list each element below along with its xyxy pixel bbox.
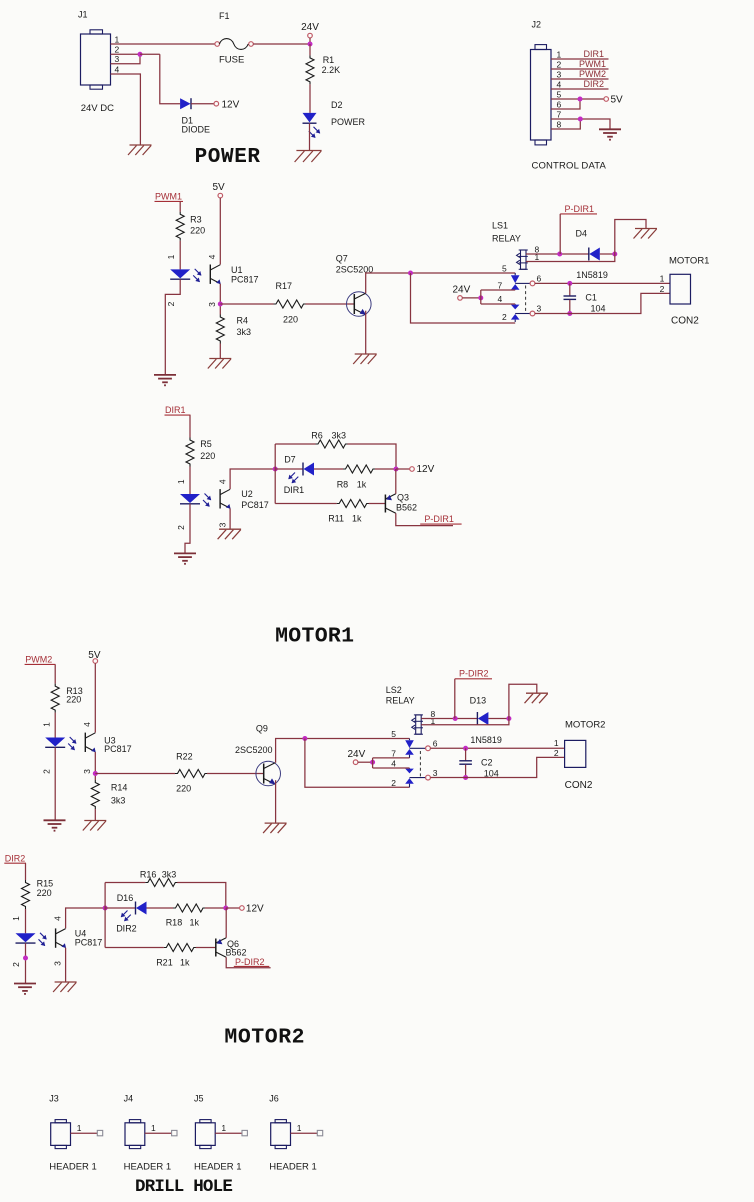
wire D13 to node (488, 718, 509, 720)
svg-text:2.2K: 2.2K (322, 65, 341, 75)
wire Q6 emitter to 12V node (225, 908, 227, 938)
wire 24V to relay pins 7/4 (462, 297, 481, 299)
svg-text:4: 4 (498, 294, 503, 304)
ground U2 LED (174, 552, 196, 554)
svg-text:5V: 5V (611, 95, 624, 106)
resistor R17 220 (274, 300, 307, 308)
wire R13 to U3 LED (54, 713, 56, 738)
svg-text:3k3: 3k3 (237, 327, 252, 337)
resistor R3 220 (176, 212, 184, 241)
wire box bottom to R11 (275, 503, 337, 505)
resistor R8 1k (343, 465, 376, 473)
svg-text:MOTOR1: MOTOR1 (669, 256, 709, 267)
svg-text:DIR2: DIR2 (116, 923, 137, 933)
wire J6 pin1 (291, 1132, 318, 1134)
svg-text:C2: C2 (481, 757, 493, 767)
wire J2 pin3 net PWM2 (551, 78, 609, 80)
wire U3 pin2 to ground (54, 747, 56, 820)
svg-text:220: 220 (37, 888, 52, 898)
svg-text:J3: J3 (49, 1094, 59, 1104)
svg-text:PC817: PC817 (104, 744, 132, 754)
resistor R18 1k (173, 904, 206, 912)
wire R4 to ground (219, 344, 221, 359)
resistor R22 220 (175, 770, 208, 778)
svg-text:4: 4 (82, 722, 92, 727)
svg-text:2: 2 (176, 525, 186, 530)
svg-text:1: 1 (557, 50, 562, 60)
junction U1 pin3 (218, 302, 223, 307)
svg-text:220: 220 (176, 784, 191, 794)
ground Q7 (355, 353, 377, 355)
svg-text:POWER: POWER (195, 146, 261, 169)
svg-text:R1: R1 (323, 55, 335, 65)
svg-text:DIODE: DIODE (182, 125, 211, 135)
power port 12V DIR1 (410, 467, 415, 472)
svg-text:MOTOR2: MOTOR2 (224, 1025, 305, 1049)
junction C1 top (567, 281, 572, 286)
wire R17 to Q7 base (306, 303, 355, 305)
ground J2 (599, 128, 621, 130)
wire box mid to D7 (275, 468, 303, 470)
svg-text:3: 3 (207, 302, 217, 307)
optocoupler U3 PC817 (45, 738, 65, 747)
svg-text:220: 220 (200, 451, 215, 461)
svg-text:2: 2 (391, 778, 396, 788)
svg-text:1: 1 (151, 1123, 156, 1133)
svg-text:220: 220 (66, 695, 81, 705)
wire DIR2 to R15 (25, 863, 27, 880)
no-connect square J4 (172, 1130, 177, 1135)
wire R5 to U2 LED (189, 467, 191, 495)
svg-text:PWM1: PWM1 (579, 59, 606, 69)
wire R21 to Q6 base (196, 947, 216, 949)
svg-text:4: 4 (218, 479, 228, 484)
svg-text:R14: R14 (111, 782, 128, 792)
wire J3 pin1 (71, 1132, 98, 1134)
svg-text:D16: D16 (117, 893, 134, 903)
wire to 12V port (226, 907, 240, 909)
junction C2 top (463, 746, 468, 751)
wire R11 to Q3 base (369, 503, 386, 505)
wire U3 pin3 node (94, 752, 96, 780)
wire fuse to 24V node (253, 43, 310, 45)
relay LS2 contact arm A to pin6 (410, 747, 426, 749)
wire U1 pin3 to R17 (220, 303, 273, 305)
svg-text:1: 1 (176, 479, 186, 484)
resistor R16 3k3 (145, 879, 178, 887)
junction J2 pin7/8 (578, 117, 583, 122)
wire J1 pin2 to node (111, 53, 141, 55)
wire relay pin7 (481, 289, 515, 291)
svg-text:7: 7 (391, 748, 396, 758)
power port 12V (214, 101, 219, 106)
svg-text:220: 220 (283, 315, 298, 325)
svg-text:24V DC: 24V DC (81, 103, 114, 114)
wire U1 pin2 to ground (165, 279, 180, 375)
junction J2 pin5/6 (578, 97, 583, 102)
svg-text:3: 3 (52, 961, 62, 966)
resistor R15 220 (22, 880, 30, 909)
svg-text:1: 1 (554, 738, 559, 748)
capacitor C1 104 (569, 283, 571, 295)
wire to 12V port (396, 468, 410, 470)
relay LS1 contact pole A (514, 273, 516, 275)
wire node down to D1 (140, 53, 160, 55)
wire U2 pin2 to ground (185, 504, 190, 554)
svg-text:1: 1 (660, 274, 665, 284)
svg-text:B562: B562 (226, 947, 247, 957)
svg-text:R8: R8 (337, 479, 349, 489)
wire Q3 collector to P-DIR1 (396, 513, 453, 525)
relay LS1 contact arm A to pin6 (515, 282, 530, 284)
svg-text:3: 3 (218, 522, 228, 527)
ground U3 LED (44, 819, 66, 821)
power port 5V at J2 (604, 97, 609, 102)
wire U2 pin4 to box (230, 469, 275, 489)
ground U4 pin3 (55, 981, 77, 983)
wire relay pin4 (373, 767, 410, 769)
svg-text:Q9: Q9 (256, 724, 268, 734)
svg-text:24V: 24V (453, 285, 471, 296)
wire R22 to Q9 base (207, 773, 264, 775)
wire R14 to ground (94, 809, 96, 821)
wire D4 to node (600, 253, 615, 255)
wire U1 pin3 node (219, 284, 221, 315)
wire box top to R6 (275, 443, 315, 445)
junction J1 pin2/3 (138, 52, 143, 57)
svg-text:220: 220 (190, 225, 205, 235)
svg-text:5: 5 (391, 729, 396, 739)
svg-text:PC817: PC817 (75, 937, 103, 947)
relay LS1 contact arm B to pin3 (515, 313, 530, 315)
wire Q7 collector to relay pin5 (366, 273, 516, 293)
diode D16 DIR2 (135, 902, 137, 915)
ground D2 (296, 150, 321, 152)
svg-text:1N5819: 1N5819 (470, 735, 502, 745)
svg-text:2SC5200: 2SC5200 (235, 745, 273, 755)
wire relay pin7 (373, 757, 410, 759)
junction 12V node DIR1 (394, 467, 399, 472)
ground U2 pin3 (219, 528, 241, 530)
diode D4 1N5819 (588, 248, 590, 261)
svg-text:HEADER 1: HEADER 1 (194, 1161, 242, 1172)
junction U3 pin3 (93, 771, 98, 776)
svg-text:HEADER 1: HEADER 1 (124, 1161, 172, 1172)
svg-text:2: 2 (557, 60, 562, 70)
wire box left vertical (104, 883, 106, 948)
junction C1 bottom (567, 311, 572, 316)
svg-text:2: 2 (502, 312, 507, 322)
svg-text:J2: J2 (532, 20, 542, 30)
junction DIR1 box left (273, 467, 278, 472)
junction Q7 collector node (408, 271, 413, 276)
relay LS2 dashed link (419, 751, 421, 777)
wire node down to relay pin2 (305, 739, 410, 788)
svg-text:DRILL HOLE: DRILL HOLE (135, 1177, 232, 1197)
junction P-DIR2 at pin8 (453, 716, 458, 721)
svg-text:C1: C1 (585, 292, 597, 302)
wire relay pin3 to CON2 pin2 (430, 757, 564, 777)
svg-text:3: 3 (537, 304, 542, 314)
wire 24V to relay pins 7/4 (358, 761, 373, 763)
wire LS2 pin1 up to node (421, 719, 509, 725)
wire R15 to U4 LED (25, 909, 27, 933)
svg-text:CON2: CON2 (671, 315, 699, 326)
svg-text:4: 4 (557, 80, 562, 90)
wire LS1 pin8 to D4 (526, 253, 589, 255)
wire J4 pin1 (145, 1132, 172, 1134)
optocoupler U2 PC817 (180, 494, 200, 503)
svg-text:2: 2 (554, 748, 559, 758)
wire PWM2 to R13 (54, 664, 56, 683)
transistor Q7 2SC5200 (347, 292, 372, 317)
wire J1 pin4 to ground (111, 74, 141, 145)
svg-text:CON2: CON2 (565, 780, 593, 791)
wire box left vertical (274, 444, 276, 504)
svg-text:2: 2 (11, 962, 21, 967)
svg-text:12V: 12V (246, 903, 264, 914)
wire J2 pin8 (551, 119, 580, 129)
svg-text:8: 8 (557, 120, 562, 130)
svg-text:2: 2 (42, 769, 52, 774)
junction D4 cathode node (612, 252, 617, 257)
optocoupler U4 PC817 (16, 933, 36, 942)
svg-text:4: 4 (52, 916, 62, 921)
svg-text:U1: U1 (231, 265, 243, 275)
svg-text:7: 7 (557, 110, 562, 120)
svg-text:1: 1 (11, 916, 21, 921)
ground near D13 (526, 692, 548, 694)
wire Q3 emitter to 12V node (395, 469, 397, 494)
svg-text:DIR1: DIR1 (284, 485, 305, 495)
wire U2 pin3 to ground (229, 509, 231, 530)
svg-text:B562: B562 (396, 502, 417, 512)
svg-text:D13: D13 (470, 695, 487, 705)
svg-text:LS2: LS2 (386, 685, 402, 695)
no-connect square J5 (242, 1130, 247, 1135)
svg-text:1k: 1k (357, 479, 367, 489)
wire R3 to U1 LED (179, 241, 181, 270)
svg-text:R11: R11 (328, 513, 344, 523)
resistor R13 220 (51, 684, 59, 713)
wire D2 to ground (309, 123, 311, 150)
connector J1 (81, 34, 111, 85)
wire node to ground (509, 684, 537, 718)
svg-text:J1: J1 (78, 10, 88, 20)
svg-text:RELAY: RELAY (492, 234, 521, 244)
svg-text:PC817: PC817 (241, 500, 269, 510)
wire D7 to R8 (314, 468, 343, 470)
wire Q9 collector to relay pin5 (276, 739, 410, 763)
svg-text:3k3: 3k3 (162, 869, 177, 879)
resistor R14 3k3 (91, 780, 99, 809)
svg-text:1: 1 (77, 1123, 82, 1133)
transistor Q9 2SC5200 (256, 761, 281, 786)
svg-text:Q7: Q7 (336, 253, 348, 263)
svg-text:4: 4 (391, 759, 396, 769)
power port 12V DIR2 (240, 906, 245, 911)
svg-text:12V: 12V (222, 99, 240, 110)
svg-text:104: 104 (591, 304, 606, 314)
svg-text:3k3: 3k3 (111, 795, 126, 805)
wire box top to R16 (105, 882, 145, 884)
svg-text:P-DIR2: P-DIR2 (235, 957, 265, 967)
svg-text:3: 3 (82, 769, 92, 774)
svg-text:F1: F1 (219, 11, 230, 21)
relay LS2 contact pole A (409, 739, 411, 741)
ground Q9 (265, 822, 287, 824)
wire R16 to 12V node (177, 883, 226, 909)
svg-text:6: 6 (557, 100, 562, 110)
wire J2 pin6 (551, 99, 580, 109)
ground U1 LED (154, 374, 176, 376)
svg-text:R3: R3 (190, 214, 202, 224)
wire D1 to 12V port (191, 103, 214, 105)
svg-text:R5: R5 (200, 439, 212, 449)
wire node down to relay pin2 (411, 273, 516, 323)
svg-text:R15: R15 (37, 879, 54, 889)
svg-text:4: 4 (207, 254, 217, 259)
svg-text:P-DIR1: P-DIR1 (424, 514, 454, 524)
svg-text:D7: D7 (284, 455, 296, 465)
transistor Q6 B562 (215, 939, 217, 957)
svg-text:1: 1 (297, 1123, 302, 1133)
svg-text:6: 6 (537, 274, 542, 284)
resistor R4 3k3 (216, 315, 224, 344)
wire J2 pin2 net PWM1 (551, 68, 609, 70)
svg-text:Q3: Q3 (397, 493, 409, 503)
svg-text:5: 5 (557, 90, 562, 100)
resistor R5 220 (186, 438, 194, 467)
svg-text:HEADER 1: HEADER 1 (49, 1161, 97, 1172)
wire J1 pin3 up to node (111, 54, 141, 64)
svg-text:5V: 5V (213, 182, 226, 193)
svg-text:1: 1 (115, 34, 120, 44)
ground R4 (209, 358, 231, 360)
diode D7 DIR1 (302, 463, 304, 476)
svg-text:POWER: POWER (331, 117, 366, 127)
svg-text:LS1: LS1 (492, 220, 508, 230)
wire 5V to U1 pin4 (219, 198, 221, 265)
svg-text:1: 1 (42, 722, 52, 727)
wire U4 pin2 to ground (25, 943, 27, 983)
svg-text:1k: 1k (352, 513, 362, 523)
junction D13 cathode node (506, 716, 511, 721)
junction U4 pin2 (23, 956, 28, 961)
relay LS2 contact arm B to pin3 (410, 777, 426, 779)
svg-text:12V: 12V (417, 464, 435, 475)
svg-text:3k3: 3k3 (332, 431, 347, 441)
svg-text:D4: D4 (576, 228, 588, 238)
wire J1 pin1 to fuse (111, 43, 216, 45)
svg-text:U2: U2 (241, 489, 253, 499)
junction DIR2 box left (103, 906, 108, 911)
svg-text:1k: 1k (190, 918, 200, 928)
relay LS2 contact pole B (409, 767, 411, 770)
junction C2 bottom (463, 775, 468, 780)
svg-text:R6: R6 (311, 431, 323, 441)
wire DIR1 to R5 (189, 415, 191, 437)
junction 24V node (308, 42, 313, 47)
connector J2 CONTROL DATA (531, 50, 552, 141)
ground R14 (84, 820, 106, 822)
ground U4 LED (14, 983, 36, 985)
wire D16 to R18 (147, 907, 174, 909)
wire J2 pin4 net DIR2 (551, 88, 609, 90)
wire P-DIR1 down (559, 214, 561, 254)
svg-text:6: 6 (433, 739, 438, 749)
wire J2 pin7 (551, 119, 610, 129)
wire LS1 pin1 up to node (526, 254, 615, 262)
svg-text:R18: R18 (166, 918, 183, 928)
wire LS2 pin8 to D13 (421, 718, 477, 720)
svg-text:P-DIR1: P-DIR1 (565, 204, 595, 214)
svg-text:MOTOR1: MOTOR1 (275, 625, 354, 649)
svg-text:5: 5 (502, 263, 507, 273)
no-connect square J3 (97, 1130, 102, 1135)
wire Q9 emitter to ground (275, 780, 277, 823)
svg-text:1k: 1k (180, 958, 190, 968)
resistor R21 1k (164, 944, 197, 952)
wire Q6 collector to P-DIR2 (226, 957, 270, 968)
wire R8 to 12V node (375, 468, 394, 470)
ground J1 (130, 144, 152, 146)
wire J2 pin1 net DIR1 (551, 58, 609, 60)
wire U3 pin3 to R22 (95, 773, 175, 775)
svg-text:1: 1 (221, 1123, 226, 1133)
svg-text:DIR1: DIR1 (165, 405, 186, 415)
svg-text:R16: R16 (140, 869, 157, 879)
svg-text:FUSE: FUSE (219, 55, 244, 66)
wire U4 pin4 to box (66, 908, 106, 928)
svg-text:PWM2: PWM2 (25, 654, 52, 664)
svg-text:J4: J4 (124, 1094, 134, 1104)
svg-text:2: 2 (660, 284, 665, 294)
wire relay pin6 to CON2 pin1 (535, 282, 670, 284)
no-connect square J6 (317, 1130, 322, 1135)
junction Q9 collector node (302, 736, 307, 741)
resistor R6 3k3 (316, 440, 349, 448)
svg-text:CONTROL DATA: CONTROL DATA (532, 161, 607, 172)
svg-text:2: 2 (115, 45, 120, 55)
svg-text:7: 7 (498, 280, 503, 290)
wire box bottom to R21 (105, 947, 164, 949)
wire J2 pin5 (551, 98, 604, 100)
svg-text:24V: 24V (301, 22, 319, 33)
svg-text:PC817: PC817 (231, 274, 259, 284)
svg-text:1N5819: 1N5819 (576, 270, 608, 280)
resistor R11 1k (337, 500, 370, 508)
optocoupler U1 PC817 (170, 269, 190, 278)
junction P-DIR1 at pin8 (557, 252, 562, 257)
svg-text:DIR2: DIR2 (583, 79, 604, 89)
junction 12V node DIR2 (223, 906, 228, 911)
wire 5V to U3 pin4 (94, 663, 96, 732)
svg-text:R17: R17 (276, 281, 293, 291)
diode D1 (180, 98, 191, 109)
wire relay pin3 to CON2 pin2 (535, 293, 670, 313)
svg-text:R22: R22 (176, 752, 193, 762)
relay LS1 contact pole B (514, 303, 516, 306)
wire R6 to 12V node (348, 444, 397, 469)
svg-text:3: 3 (557, 70, 562, 80)
wire node to ground (615, 220, 646, 255)
svg-text:3: 3 (433, 768, 438, 778)
diode D13 1N5819 (476, 712, 478, 725)
transistor Q3 B562 (384, 495, 386, 513)
svg-text:4: 4 (115, 64, 120, 74)
svg-text:DIR1: DIR1 (583, 49, 604, 59)
